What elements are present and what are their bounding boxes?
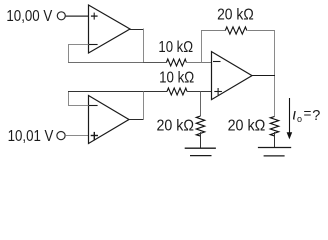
op-amp U1 (top buffer)	[89, 5, 131, 53]
ground G1	[185, 148, 216, 155]
label io = ?	[293, 106, 321, 124]
svg-text:=: =	[304, 106, 312, 121]
wire U1 output horizontal	[130, 29, 145, 31]
svg-text:10 kΩ: 10 kΩ	[158, 39, 193, 56]
resistor R3 10 kOhm (bottom series)	[167, 88, 187, 95]
wire U1 feedback minus input	[68, 44, 89, 46]
svg-text:o: o	[297, 114, 302, 124]
current arrow io	[287, 98, 293, 139]
wire node A horizontal run y62 left	[68, 62, 144, 64]
terminal T2 (10,01 V source)	[57, 132, 65, 140]
svg-text:10,00 V: 10,00 V	[6, 8, 52, 25]
ground G2	[258, 148, 291, 156]
op-amp U2 (bottom buffer)	[89, 96, 130, 144]
wire U3 output	[252, 75, 275, 77]
U2 plus symbol	[91, 132, 98, 140]
svg-text:10,01 V: 10,01 V	[8, 128, 54, 145]
wire output node right vertical x274.5	[274, 31, 276, 117]
wire R1 to U3 minus	[186, 62, 211, 64]
wire R4 bottom lead	[200, 132, 202, 148]
svg-text:?: ?	[312, 108, 320, 124]
U1 plus symbol	[91, 13, 98, 20]
wire node C horizontal run y91.5	[68, 91, 167, 93]
wire R3 to U3 plus	[187, 91, 212, 93]
U3 plus symbol	[214, 88, 222, 95]
wire node D down vertical x200.5	[200, 92, 202, 117]
wire node A horizontal run y62 right	[143, 62, 166, 64]
svg-text:ι: ι	[293, 107, 297, 124]
wire feedback top left lead	[201, 30, 225, 32]
wire U2 feedback minus input	[68, 105, 89, 107]
wire node B feedback up vertical x201	[201, 31, 203, 63]
resistor R2 20 kOhm (feedback)	[225, 27, 247, 34]
resistor R4 20 kOhm (left load, vertical)	[196, 116, 204, 136]
wire T2 to U2 + input	[65, 135, 88, 137]
wire U1 output down vertical	[143, 29, 145, 63]
svg-text:20 kΩ: 20 kΩ	[217, 6, 254, 23]
svg-text:10 kΩ: 10 kΩ	[159, 70, 194, 87]
U2 minus stub	[89, 105, 98, 107]
wire T1 to U1 + input	[66, 15, 89, 17]
U3 minus stub	[213, 61, 221, 63]
wire U2 output horizontal	[129, 119, 144, 121]
svg-text:20 kΩ: 20 kΩ	[157, 118, 195, 135]
op-amp U3 (difference amp)	[212, 52, 253, 100]
svg-text:20 kΩ: 20 kΩ	[228, 118, 266, 135]
resistor R1 10 kOhm (top series)	[166, 59, 186, 66]
wire U1 feedback left vertical	[68, 44, 70, 63]
wire feedback top right lead	[247, 30, 275, 32]
wire U2 feedback left vertical	[68, 92, 70, 107]
wire U2 output up vertical	[143, 92, 145, 121]
U1 minus stub	[89, 44, 98, 46]
wire R5 bottom lead	[274, 132, 276, 148]
terminal T1 (10,00 V source)	[57, 12, 65, 20]
resistor R5 20 kOhm (right load, vertical)	[270, 117, 278, 136]
